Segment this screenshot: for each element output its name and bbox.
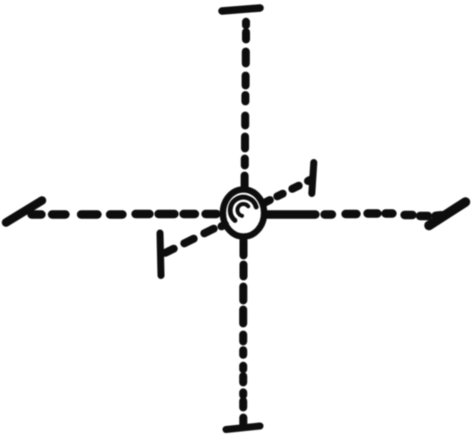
- wire: vertical axis lower dashed segment: [239, 241, 247, 426]
- wire: horizontal axis left dashed segment: [32, 210, 217, 219]
- left end tick (slash) of horizontal axis: [6, 201, 42, 223]
- bottom end bar of vertical axis: [226, 426, 260, 430]
- wire: horizontal axis right dashed segment: [268, 214, 442, 217]
- center hub: large inner arc (spiral): [230, 197, 256, 220]
- top end bar of vertical axis: [222, 8, 260, 11]
- lower-left end bar of oblique axis: [160, 233, 161, 276]
- wire: oblique axis upper-right dashed segment: [265, 179, 312, 202]
- center hub: outer circle: [223, 189, 264, 236]
- upper-right end bar of oblique axis: [312, 163, 314, 194]
- center hub: small inner arc (spiral): [237, 204, 248, 216]
- wire: oblique axis lower-left dashed segment: [165, 225, 225, 253]
- wire: vertical axis upper dashed segment: [245, 22, 246, 187]
- right end tick (slash) of horizontal axis: [429, 202, 466, 226]
